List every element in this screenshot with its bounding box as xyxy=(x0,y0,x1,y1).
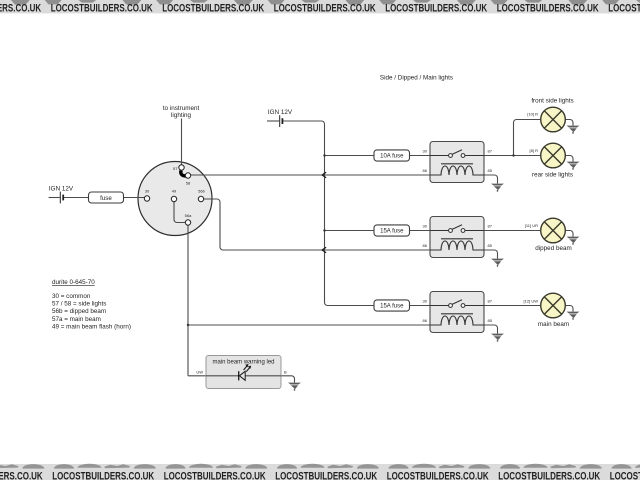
wire relay K2 87 to dipped lamp xyxy=(484,230,541,232)
wire lamp L4 to ground xyxy=(565,306,573,312)
relay K2 xyxy=(423,217,493,258)
wire lamp L2 to ground xyxy=(565,156,573,162)
svg-text:to instrument: to instrument xyxy=(163,105,200,112)
wire terminal 57 to instrument lighting xyxy=(181,119,183,165)
wire led output to ground xyxy=(246,376,295,383)
svg-text:LOCOSTBUILDERS.CO.UK: LOCOSTBUILDERS.CO.UK xyxy=(275,470,377,480)
svg-text:UW: UW xyxy=(196,369,203,374)
relay K3 xyxy=(423,292,493,333)
switch terminal labels xyxy=(145,166,206,218)
wire relay K3 87 to main lamp xyxy=(484,305,541,307)
switch wiper contact xyxy=(181,171,186,177)
switch terminal 56a xyxy=(185,220,190,225)
svg-text:LOCOSTBUILDERS.CO.UK: LOCOSTBUILDERS.CO.UK xyxy=(385,3,487,15)
svg-text:15A fuse: 15A fuse xyxy=(380,229,404,235)
fuse F2 10A xyxy=(374,150,410,161)
svg-text:lighting: lighting xyxy=(171,112,191,119)
wire F1 to switch terminal 30 xyxy=(124,197,145,199)
svg-text:LOCOSTBUILDERS.CO.UK: LOCOSTBUILDERS.CO.UK xyxy=(51,3,153,15)
svg-text:LOCOSTBUILDERS.CO.UK: LOCOSTBUILDERS.CO.UK xyxy=(0,470,43,480)
svg-text:durite 0-645-70: durite 0-645-70 xyxy=(52,279,95,286)
fuse F4 15A xyxy=(374,300,410,311)
svg-text:87: 87 xyxy=(488,149,493,154)
switch terminal 30 xyxy=(144,196,149,201)
wire lamp L1 to ground xyxy=(565,120,573,126)
wire led input xyxy=(188,375,239,377)
wire switch internal 49 to 56a xyxy=(174,202,185,223)
svg-text:49 = main beam flash (horn): 49 = main beam flash (horn) xyxy=(52,323,131,330)
svg-text:Side / Dipped / Main lights: Side / Dipped / Main lights xyxy=(380,75,453,82)
switch terminal 58 xyxy=(185,173,190,178)
lamp L4 main beam xyxy=(541,293,566,318)
lamp L2 rear side lights xyxy=(541,143,566,168)
lamp L1 front side lights xyxy=(541,107,566,132)
svg-text:LOCOSTBUILDERS.CO.UK: LOCOSTBUILDERS.CO.UK xyxy=(387,470,489,480)
ground G1 relay K1 xyxy=(491,184,504,192)
svg-text:fuse: fuse xyxy=(100,195,112,202)
junction node bus-F2 xyxy=(323,154,325,156)
svg-text:dipped beam: dipped beam xyxy=(535,245,571,252)
battery B1 IGN 12V xyxy=(49,186,74,204)
svg-text:30: 30 xyxy=(423,299,428,304)
svg-text:86: 86 xyxy=(423,318,428,323)
svg-text:57 / 58 = side lights: 57 / 58 = side lights xyxy=(52,301,106,308)
svg-text:main beam warning led: main beam warning led xyxy=(212,360,274,366)
wire relay K1 87 to lamps xyxy=(484,155,541,157)
svg-text:LOCOSTBUILDERS.CO.UK: LOCOSTBUILDERS.CO.UK xyxy=(162,3,264,15)
wire relay K2 85 to ground xyxy=(484,250,498,259)
wire lamp L3 to ground xyxy=(565,231,573,237)
light switch SW1 body xyxy=(138,162,212,236)
svg-text:[11] UR: [11] UR xyxy=(525,223,538,228)
wire fuse F2 to relay K1 30 xyxy=(410,155,431,157)
ground G3 relay K3 xyxy=(491,334,504,342)
svg-text:57a = main beam: 57a = main beam xyxy=(52,316,101,323)
wire B2 left stub xyxy=(267,120,279,122)
svg-text:85: 85 xyxy=(488,318,493,323)
svg-text:[8] R: [8] R xyxy=(530,148,539,153)
wire B1 left stub xyxy=(49,197,60,199)
switch terminal 56b xyxy=(198,196,203,201)
svg-text:58: 58 xyxy=(186,181,191,186)
svg-text:86: 86 xyxy=(423,168,428,173)
svg-text:30 = common: 30 = common xyxy=(52,293,91,300)
wire bus branch to fuse F3 xyxy=(325,230,375,232)
wire fuse F4 to relay K3 30 xyxy=(410,305,431,307)
watermark bottom band xyxy=(0,464,640,480)
svg-text:57: 57 xyxy=(173,166,178,171)
svg-text:B: B xyxy=(284,369,287,374)
fuse F3 15A xyxy=(374,225,410,236)
svg-text:rear side lights: rear side lights xyxy=(532,172,573,179)
svg-text:LOCOSTBUILDERS.CO.UK: LOCOSTBUILDERS.CO.UK xyxy=(52,470,154,480)
lamp L3 dipped beam xyxy=(541,218,566,243)
ground G8 led xyxy=(288,383,301,391)
svg-text:56a: 56a xyxy=(185,213,192,218)
ground G4 lamp L1 xyxy=(567,126,580,134)
junction node lamp branch xyxy=(512,154,514,156)
wire relay K3 85 to ground xyxy=(484,325,498,334)
svg-text:LOCOSTBUILDERS.CO.UK: LOCOSTBUILDERS.CO.UK xyxy=(497,3,599,15)
svg-text:87: 87 xyxy=(488,299,493,304)
svg-text:30: 30 xyxy=(145,189,150,194)
wire 12V bus xyxy=(282,121,374,306)
switch terminal 49 xyxy=(171,196,176,201)
wire fuse F3 to relay K2 30 xyxy=(410,230,431,232)
crossing chevron at bus and 58 wire xyxy=(322,172,326,178)
fuse F1 xyxy=(89,192,124,203)
svg-text:front side lights: front side lights xyxy=(531,97,573,104)
svg-text:49: 49 xyxy=(172,189,177,194)
svg-text:LOCOSTBUILDERS.CO.UK: LOCOSTBUILDERS.CO.UK xyxy=(610,470,640,480)
wire switch 57a down to led xyxy=(187,225,189,376)
svg-text:85: 85 xyxy=(488,243,493,248)
relay K1 xyxy=(423,142,493,183)
svg-text:LOCOSTBUILDERS.CO.UK: LOCOSTBUILDERS.CO.UK xyxy=(164,470,266,480)
junction node 57a branch xyxy=(187,324,189,326)
svg-text:main beam: main beam xyxy=(538,321,569,328)
wire B1 to fuse F1 xyxy=(63,197,88,199)
svg-text:LOCOSTBUILDERS.CO.UK: LOCOSTBUILDERS.CO.UK xyxy=(0,3,41,15)
svg-text:LOCOSTBUILDERS.CO.UK: LOCOSTBUILDERS.CO.UK xyxy=(498,470,600,480)
wire terminal 58 to relay K1 86 xyxy=(191,174,430,176)
svg-text:LOCOSTBUILDERS.CO.UK: LOCOSTBUILDERS.CO.UK xyxy=(274,3,376,15)
battery B2 IGN 12V xyxy=(268,109,293,127)
svg-text:LOCOSTBUILDERS.CO.UK: LOCOSTBUILDERS.CO.UK xyxy=(608,3,640,15)
svg-text:10A fuse: 10A fuse xyxy=(380,154,404,160)
svg-text:[10] R: [10] R xyxy=(527,112,538,117)
wire branch up to front side lamp xyxy=(514,120,541,156)
crossing chevron at bus and 56b wire xyxy=(322,247,326,253)
svg-text:30: 30 xyxy=(423,149,428,154)
svg-text:56b = dipped beam: 56b = dipped beam xyxy=(52,308,106,315)
main beam warning led box xyxy=(206,356,281,389)
svg-text:85: 85 xyxy=(488,168,493,173)
switch terminal 57 xyxy=(179,165,184,170)
svg-text:15A fuse: 15A fuse xyxy=(380,304,404,310)
junction node bus-F3 xyxy=(323,229,325,231)
svg-text:[12] UW: [12] UW xyxy=(524,299,539,304)
ground G6 lamp L3 xyxy=(567,237,580,245)
svg-text:30: 30 xyxy=(423,224,428,229)
legend durite 0-645-70 xyxy=(52,279,131,330)
watermark top band xyxy=(0,0,640,15)
ground G7 lamp L4 xyxy=(567,312,580,320)
ground G5 lamp L2 xyxy=(567,162,580,170)
wire branch to relay K3 86 xyxy=(188,324,430,326)
LED D1 xyxy=(239,364,252,380)
wire bus branch to fuse F2 xyxy=(325,155,375,157)
svg-text:IGN 12V: IGN 12V xyxy=(268,109,293,116)
wire relay K1 85 to ground xyxy=(484,175,498,184)
ground G2 relay K2 xyxy=(491,259,504,267)
wire switch 56b to relay K2 86 xyxy=(204,199,430,250)
svg-text:56b: 56b xyxy=(198,189,205,194)
svg-text:IGN 12V: IGN 12V xyxy=(49,186,74,193)
svg-text:86: 86 xyxy=(423,243,428,248)
svg-text:87: 87 xyxy=(488,224,493,229)
